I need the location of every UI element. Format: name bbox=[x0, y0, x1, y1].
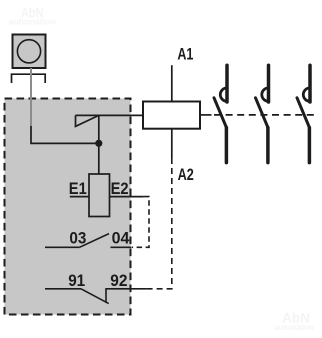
watermark bottom-right bbox=[274, 311, 314, 333]
wire: A1 lead bbox=[171, 65, 173, 101]
svg-text:92: 92 bbox=[110, 271, 127, 290]
junction node (dot) bbox=[95, 140, 102, 147]
terminal lead 03 bbox=[45, 246, 80, 248]
svg-text:91: 91 bbox=[68, 271, 85, 290]
svg-text:automation: automation bbox=[9, 17, 56, 27]
contact blade 91-92 (NC opener) bbox=[81, 289, 109, 304]
pushbutton actuator (mushroom head) bbox=[13, 35, 46, 69]
terminal lead 04 bbox=[111, 246, 132, 248]
svg-text:04: 04 bbox=[112, 228, 130, 247]
dashed link: E2 to terminal 04 bbox=[132, 197, 150, 248]
svg-text:E1: E1 bbox=[69, 179, 87, 198]
actuator shaft (gray mechanical link) bbox=[30, 68, 32, 127]
wire: coil bottom lead (solid) bbox=[171, 129, 173, 158]
svg-text:A1: A1 bbox=[177, 45, 193, 64]
wire: trip flag to contactor coil (crosses enclosure border) bbox=[76, 114, 144, 116]
breaker pole 1 bbox=[214, 65, 227, 162]
breaker pole 3 bbox=[297, 65, 310, 162]
terminal 92 lead with L-stub bbox=[106, 289, 147, 303]
wire: coil right lead to trip bar bbox=[200, 114, 212, 116]
dashed link: A2 to terminal 92 bbox=[147, 158, 172, 289]
wire: shaft to junction node bbox=[31, 126, 99, 143]
svg-text:automation: automation bbox=[274, 322, 314, 332]
terminal lead E2 bbox=[110, 196, 144, 198]
actuator mounting bracket bbox=[12, 74, 46, 83]
terminal lead 91 bbox=[45, 288, 81, 290]
trip coil E1-E2 (box) bbox=[89, 174, 110, 217]
undervoltage release module enclosure (gray dashed box) bbox=[5, 99, 131, 315]
terminal lead E1 bbox=[70, 196, 89, 198]
svg-text:E2: E2 bbox=[111, 179, 129, 198]
trip flag / latch symbol bbox=[76, 115, 99, 126]
undervoltage coil A1-A2 (box) bbox=[143, 102, 200, 129]
wire: junction to trip coil E bbox=[98, 143, 100, 174]
svg-text:A2: A2 bbox=[178, 165, 194, 184]
dashed trip bar across breaker poles bbox=[214, 114, 318, 116]
wire: junction to trip flag bbox=[98, 115, 100, 143]
contact blade 03-04 (NO) bbox=[80, 234, 110, 248]
breaker pole 2 bbox=[256, 65, 269, 162]
watermark top-left bbox=[9, 5, 56, 26]
